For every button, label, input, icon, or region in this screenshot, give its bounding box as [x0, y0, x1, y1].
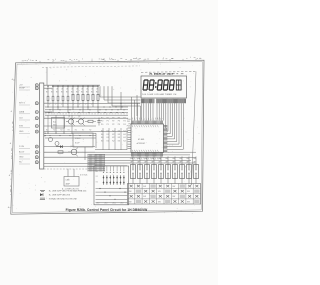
wire-cross hatch — [88, 154, 106, 172]
key label 7b — [172, 162, 175, 164]
wire DATA — [44, 111, 52, 113]
net label GND — [19, 157, 30, 160]
net label P-ON — [19, 146, 30, 149]
wire drop low — [120, 128, 122, 150]
svg-text:SW: SW — [187, 191, 190, 193]
svg-text:4: 4 — [190, 57, 191, 59]
wire display bus R — [163, 103, 165, 120]
IC601 pin numbers top — [132, 125, 158, 127]
key stem 3 — [146, 179, 148, 184]
svg-text:STB: STB — [19, 125, 24, 127]
key switch S609 — [187, 165, 192, 179]
junction — [103, 106, 106, 113]
value label b4 — [66, 89, 69, 91]
net label AC5V — [19, 151, 30, 155]
diode D604 — [55, 142, 59, 146]
legend diode symbol — [40, 193, 70, 196]
net label STB — [19, 125, 30, 128]
wire display bus R — [156, 103, 158, 120]
wire drop — [72, 86, 74, 110]
legend note — [80, 174, 88, 177]
key label 6b — [165, 162, 168, 164]
IC601 microcomputer — [131, 124, 164, 153]
svg-text:P0: P0 — [101, 121, 103, 123]
wire drop — [137, 103, 139, 121]
wire drop mid — [55, 115, 57, 133]
wire dashed low — [44, 168, 90, 170]
value label 0 — [46, 92, 48, 94]
resistor R608 — [87, 94, 89, 100]
net label KEY S — [19, 103, 30, 106]
wire STB — [44, 125, 96, 127]
svg-text:K1: K1 — [107, 141, 109, 143]
scan noise speckle — [12, 60, 201, 214]
junction mid — [47, 133, 48, 134]
IC601 pin numbers bottom — [132, 150, 158, 152]
LED box bottom text — [96, 202, 124, 204]
net name cluster — [127, 119, 132, 128]
vert wire2 — [136, 95, 138, 116]
junction — [121, 106, 124, 113]
wire bus LED — [96, 188, 128, 190]
svg-text:P3: P3 — [118, 121, 120, 123]
key label 1a — [130, 158, 133, 160]
junction — [77, 106, 80, 113]
svg-text:SW: SW — [143, 196, 146, 198]
LED board box — [94, 166, 129, 205]
wire key feed — [132, 157, 134, 165]
wire display bus L — [143, 103, 145, 120]
key label 2a — [137, 158, 140, 160]
svg-text:K3: K3 — [118, 141, 120, 143]
port labels row 2 — [101, 124, 126, 126]
svg-text:R2: R2 — [60, 130, 62, 132]
wire drop — [140, 106, 142, 121]
junction mid2 — [80, 135, 81, 136]
key label 5b — [158, 162, 161, 164]
wire — [95, 133, 97, 148]
svg-text:: B+ LINE SUPPLIED FROM MAIN P: : B+ LINE SUPPLIED FROM MAIN PWB (5V) — [48, 190, 87, 193]
junction — [77, 86, 78, 87]
svg-text:P03: P03 — [127, 126, 130, 128]
wire bus — [45, 109, 128, 111]
key switch S606 — [166, 165, 171, 179]
svg-text:4: 4 — [28, 59, 29, 61]
svg-text:R0: R0 — [51, 92, 53, 94]
label Q603 — [70, 146, 74, 148]
svg-text:SW: SW — [172, 186, 175, 188]
key stem 9 — [188, 179, 190, 184]
junction mid2 — [60, 135, 61, 136]
resistor R600 — [47, 96, 49, 101]
wire GND2 — [44, 156, 95, 158]
junction LED — [124, 192, 125, 193]
frame zone ticks left — [8, 78, 14, 209]
wire key feed — [153, 157, 155, 165]
svg-text:R2: R2 — [82, 130, 84, 132]
svg-text:R2: R2 — [53, 130, 55, 132]
key switch S608 — [180, 165, 185, 179]
wire bus mid — [45, 135, 96, 137]
wire display bus L — [145, 103, 147, 120]
wire xtal drop — [68, 169, 74, 177]
wire display bus elbow — [167, 103, 170, 134]
value label b10 — [96, 89, 99, 91]
pcb outline dashed — [42, 66, 140, 67]
wire drop — [62, 86, 64, 107]
display indicator — [176, 80, 183, 91]
value label 7 — [81, 92, 83, 94]
svg-text:P4: P4 — [123, 121, 125, 123]
svg-text:4: 4 — [82, 58, 83, 60]
LED array D610-D623 — [103, 172, 125, 185]
wire AC5V — [44, 151, 95, 153]
value label 9 — [91, 92, 93, 94]
svg-text:P1: P1 — [107, 121, 109, 123]
svg-text:4: 4 — [55, 59, 56, 61]
wire +5V — [44, 84, 100, 86]
key label 7a — [172, 158, 175, 160]
board outline right — [192, 72, 197, 186]
svg-text:P1: P1 — [107, 124, 109, 126]
wire drop low — [114, 128, 116, 150]
svg-text:CLK: CLK — [19, 118, 24, 120]
svg-text:P3: P3 — [118, 124, 120, 126]
key label 9b — [186, 162, 189, 164]
svg-text:K1: K1 — [107, 130, 109, 132]
IC601 left pins — [128, 128, 131, 149]
svg-text:K1: K1 — [107, 137, 109, 139]
wire drop mid — [47, 115, 49, 133]
svg-text:uPD553C: uPD553C — [137, 143, 146, 145]
key switch S610 — [194, 165, 199, 179]
wire display bus R — [160, 103, 162, 120]
junction mid2 — [50, 135, 51, 136]
label specks mid — [46, 130, 91, 132]
legend cap symbol — [40, 198, 77, 201]
resistor R607 — [82, 94, 84, 100]
net label +5V — [19, 85, 30, 88]
junction — [44, 133, 45, 137]
value label b0 — [46, 89, 49, 91]
wire drop — [134, 100, 136, 121]
junction — [115, 106, 118, 113]
key stem 4 — [153, 179, 155, 184]
svg-text:K4: K4 — [123, 134, 125, 136]
port labels row b2 — [101, 137, 126, 139]
svg-text:R0: R0 — [61, 92, 63, 94]
junction — [47, 106, 50, 113]
key stem 1 — [132, 179, 134, 184]
wire key feed — [139, 157, 141, 165]
key stem 5 — [160, 179, 162, 184]
wire bus elbow — [100, 86, 141, 97]
value label 1 — [51, 92, 53, 94]
connector CN601 pin 8 — [35, 145, 38, 148]
key label 3a — [144, 158, 147, 160]
svg-text:BU2P: BU2P — [75, 143, 80, 145]
key label 5a — [158, 158, 161, 160]
svg-text:AC5V: AC5V — [19, 151, 25, 154]
value label b6 — [76, 89, 79, 91]
junction — [87, 86, 88, 87]
display digit 3 — [157, 80, 162, 90]
junction — [47, 86, 48, 87]
key label 4a — [151, 158, 154, 160]
junction — [72, 86, 73, 87]
diode D603 — [49, 138, 53, 142]
key label 6a — [165, 158, 168, 160]
svg-text:400P: 400P — [66, 183, 71, 185]
svg-text:SW: SW — [172, 196, 175, 198]
svg-text:K3: K3 — [118, 134, 120, 136]
wire bus bottom — [95, 154, 190, 156]
connector CN601 pin 3 — [35, 102, 38, 105]
wire key feed — [174, 157, 176, 165]
connector CN601 body — [40, 83, 44, 169]
key label 8b — [179, 162, 182, 164]
key label 4b — [151, 162, 154, 164]
net label CLK — [19, 118, 30, 121]
IC601 top pins — [132, 121, 163, 125]
svg-text:K2: K2 — [112, 141, 114, 143]
wire bus mid — [45, 132, 96, 134]
junction LED — [99, 188, 100, 189]
svg-text:K2: K2 — [112, 137, 114, 139]
svg-text:R0: R0 — [76, 92, 78, 94]
wire bus elbow — [112, 86, 141, 106]
wire bus LED — [96, 198, 128, 200]
port labels row 0 — [101, 118, 126, 120]
junction — [109, 106, 112, 113]
wire drop — [67, 86, 69, 112]
svg-text:R0: R0 — [81, 92, 83, 94]
junction LED — [119, 188, 120, 189]
wire key feed — [181, 157, 183, 165]
wire top rail — [52, 85, 98, 87]
net label VDISP — [19, 88, 30, 91]
value label b7 — [81, 89, 84, 91]
junction — [62, 86, 63, 87]
svg-text:K0: K0 — [96, 171, 98, 173]
value label 6 — [76, 92, 78, 94]
svg-text:R2: R2 — [75, 130, 77, 132]
value label b5 — [71, 89, 74, 91]
svg-text:P2: P2 — [112, 121, 114, 123]
table x marks — [129, 185, 200, 204]
svg-text:P3: P3 — [118, 118, 120, 120]
transistor Q602 — [76, 116, 85, 126]
svg-text:VDISP: VDISP — [19, 88, 26, 90]
svg-text:P0: P0 — [101, 118, 103, 120]
value label b1 — [51, 89, 54, 91]
display digit 5 — [169, 80, 174, 90]
value label 4 — [66, 92, 68, 94]
resistor R609 — [92, 94, 94, 100]
wire drop low — [108, 128, 110, 150]
IC603 box — [73, 133, 93, 147]
display DISP601 box — [141, 76, 187, 98]
label A-point — [62, 187, 80, 190]
legend ground symbol — [40, 190, 87, 193]
svg-text:GND: GND — [19, 157, 24, 159]
IC602 box — [52, 118, 65, 129]
resistor R602 — [57, 96, 59, 101]
connector CN601 pin 2 — [35, 87, 38, 90]
display digit 2 — [149, 80, 154, 90]
key stem 7 — [174, 179, 176, 184]
value label b2 — [56, 89, 59, 91]
svg-text:K3: K3 — [118, 137, 120, 139]
wire drop — [52, 86, 54, 112]
key switch S601 — [131, 165, 136, 179]
key switch S602 — [138, 165, 143, 179]
svg-text:P4: P4 — [123, 124, 125, 126]
wire display bus elbow — [167, 103, 181, 147]
svg-text:Figure R26b. Control Panel Cir: Figure R26b. Control Panel Circuit for 1… — [66, 208, 148, 212]
wire drop — [92, 86, 94, 107]
svg-text:SW: SW — [187, 201, 190, 203]
wire display bus L — [147, 103, 149, 120]
IC601 pin numbers above — [132, 118, 160, 120]
svg-text:K2: K2 — [96, 181, 98, 183]
port labels row b1 — [101, 134, 126, 136]
connector CN601 pin 6 — [35, 125, 38, 128]
wire display bus L — [141, 103, 143, 120]
display legend text — [142, 93, 176, 96]
value label b8 — [86, 89, 89, 91]
svg-text:P4: P4 — [123, 118, 125, 120]
connector CN601 pin 10 — [35, 156, 38, 159]
connector CN601 pin 11 — [35, 161, 38, 164]
net label NC — [19, 162, 30, 165]
wire drop — [131, 97, 133, 121]
display colon — [155, 82, 157, 88]
junction — [57, 86, 58, 87]
junction mid — [71, 133, 72, 134]
resistor R601 — [52, 96, 54, 101]
wire display bus elbow — [167, 103, 175, 139]
svg-text:P2: P2 — [112, 118, 114, 120]
border frame outer — [11, 60, 204, 214]
port labels row 1 — [101, 121, 126, 123]
wire bus elbow — [104, 86, 141, 100]
wire key feed — [195, 157, 197, 165]
wire drop mid — [71, 115, 73, 133]
key label 10a — [193, 158, 196, 160]
wire bus bottom — [95, 149, 127, 151]
key label 3b — [144, 162, 147, 164]
wire bus LED — [96, 201, 128, 203]
wire KEY — [44, 102, 140, 104]
connector CN601 pin 9 — [35, 151, 38, 154]
frame edge micro marks — [21, 57, 201, 64]
wire display bus elbow — [167, 103, 168, 131]
svg-text:K4: K4 — [123, 141, 125, 143]
wire GND — [44, 131, 128, 133]
svg-text:R0: R0 — [56, 92, 58, 94]
wire CLK — [44, 117, 128, 119]
svg-text:K1: K1 — [96, 176, 98, 178]
wire display bus R — [158, 103, 160, 120]
ref labels row2 — [49, 104, 93, 106]
wire drop mid — [63, 115, 65, 133]
wire bus — [45, 114, 128, 116]
wire riser — [46, 67, 48, 85]
svg-text:Q1: Q1 — [68, 116, 70, 118]
svg-text:100 10HR 0120 AM TIMER CH: 100 10HR 0120 AM TIMER CH — [142, 93, 176, 96]
svg-text:K4: K4 — [123, 137, 125, 139]
connector CN601 pin 1 — [35, 84, 38, 87]
IC601 right pins — [164, 126, 168, 152]
svg-text:: SIGNAL GROUND ROUTE LINE: : SIGNAL GROUND ROUTE LINE — [48, 198, 77, 201]
wire drop — [77, 86, 79, 107]
caption — [66, 208, 148, 212]
resistor R603 — [62, 96, 64, 101]
junction mid — [63, 133, 64, 134]
resistor R605 — [72, 94, 74, 100]
wire bus — [45, 112, 128, 114]
resistor R606 — [77, 94, 79, 100]
wire bus low — [44, 163, 95, 165]
value label 5 — [71, 92, 73, 94]
wire drop low — [126, 128, 128, 150]
svg-text:Q2: Q2 — [78, 116, 80, 118]
wire bus mid — [45, 137, 96, 139]
svg-text:SW: SW — [143, 186, 146, 188]
port labels row b3 — [101, 141, 126, 143]
wire display bus elbow — [167, 103, 173, 136]
svg-text:R2: R2 — [46, 130, 48, 132]
wire bus bottom — [95, 151, 196, 153]
frame left micro marks — [10, 79, 14, 208]
junction — [97, 86, 98, 87]
vert wire — [120, 92, 121, 110]
frame zone ticks top — [22, 57, 196, 67]
transistor Q601 — [66, 116, 75, 126]
junction LED — [104, 192, 105, 193]
svg-text:GND: GND — [19, 131, 24, 133]
value label 10 — [96, 92, 98, 94]
junction — [82, 86, 83, 87]
svg-text:R0: R0 — [96, 92, 98, 94]
svg-text:R0: R0 — [86, 92, 88, 94]
connector CN601 pin 5 — [35, 117, 38, 120]
junction — [67, 106, 70, 113]
wire — [84, 147, 86, 160]
wire key feed — [188, 157, 190, 165]
wire bus — [45, 106, 128, 108]
resistor R604 — [67, 96, 69, 101]
svg-text:SW: SW — [158, 191, 161, 193]
junction mid2 — [90, 135, 91, 136]
wire bus bottom — [95, 157, 196, 159]
svg-text:R0: R0 — [71, 92, 73, 94]
wire P-ON — [44, 146, 95, 148]
wire drop low — [102, 128, 104, 150]
display unit outline — [141, 72, 196, 77]
transistor Q603 — [68, 148, 78, 157]
IC601 pin numbers below — [132, 157, 160, 159]
svg-text:P1: P1 — [107, 118, 109, 120]
ceramic resonator X601 — [64, 177, 79, 187]
key stem 2 — [139, 179, 141, 184]
svg-text:DATA: DATA — [19, 110, 25, 113]
display digit 1 — [143, 80, 148, 90]
wire bus bottom — [95, 162, 196, 164]
value label 2 — [56, 92, 58, 94]
wire display bus elbow — [166, 103, 167, 128]
